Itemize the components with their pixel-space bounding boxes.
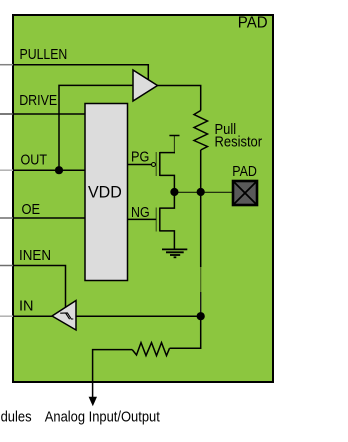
transistor Q1 PMOS gate bar <box>155 152 157 176</box>
wire PMOS source to VDD rail <box>160 152 175 154</box>
wire DRIVE to VDD block <box>13 113 85 115</box>
wire OUT external stub <box>0 169 13 171</box>
svg-text:IN: IN <box>19 298 34 315</box>
svg-text:NG: NG <box>131 204 150 221</box>
wire NMOS source to ground <box>160 231 175 249</box>
transistor Q1 PMOS channel bar <box>159 152 161 176</box>
junction OUT branch <box>55 166 63 174</box>
wire NG gate from VDD <box>128 218 157 220</box>
wire PMOS drain to pad node <box>160 175 175 192</box>
wire PULLEN to buffer enable <box>13 65 148 81</box>
ground <box>162 249 187 257</box>
svg-text:OE: OE <box>22 201 41 218</box>
wire resistor to analog output <box>93 350 133 400</box>
pad cell outline box <box>13 15 273 382</box>
svg-text:INEN: INEN <box>19 247 51 264</box>
transistor Q2 NMOS channel bar <box>159 208 161 232</box>
wire DRIVE external stub <box>0 113 13 115</box>
VDD rail tick <box>169 135 179 137</box>
wire IN to input buffer output apex <box>13 315 52 317</box>
wire PULLEN external stub <box>0 64 13 66</box>
PAD bond pad square <box>233 181 257 205</box>
svg-text:VDD: VDD <box>88 183 122 201</box>
svg-text:PAD: PAD <box>238 15 268 32</box>
wire buffer output to pull resistor <box>158 86 201 111</box>
schmitt hysteresis glyph <box>60 313 73 319</box>
svg-text:Resistor: Resistor <box>215 134 263 151</box>
junction pad node left <box>170 188 178 196</box>
svg-text:dules: dules <box>1 409 32 426</box>
junction analog branch <box>197 312 205 320</box>
tri-state pull buffer <box>133 70 158 101</box>
svg-text:PAD: PAD <box>232 163 257 180</box>
wire OE external stub <box>0 217 13 219</box>
svg-text:Analog Input/Output: Analog Input/Output <box>45 409 161 426</box>
wire OUT to VDD block <box>13 169 85 171</box>
wire input buffer to pad node <box>76 315 201 317</box>
transistor Q1 PMOS gate bubble <box>152 163 156 167</box>
junction pad node right <box>197 188 205 196</box>
analog series resistor zigzag <box>132 343 169 356</box>
wire pull resistor to pad node <box>200 150 202 192</box>
wire analog branch down <box>170 316 201 348</box>
wire OUT branch up to buffer input <box>59 85 133 170</box>
svg-text:PULLEN: PULLEN <box>20 46 68 63</box>
wire INEN to input buffer enable <box>13 266 66 309</box>
pull resistor zigzag <box>194 111 208 151</box>
input buffer (schmitt) <box>52 301 76 331</box>
arrowhead analog output <box>89 397 97 407</box>
transistor Q2 NMOS gate bar <box>155 208 157 232</box>
wire INEN external stub <box>0 265 13 267</box>
wire pad node down to analog branch <box>200 192 202 316</box>
wire IN external stub <box>0 315 13 317</box>
wire pad node to PAD square <box>174 191 233 193</box>
svg-text:PG: PG <box>131 149 149 166</box>
svg-text:OUT: OUT <box>21 151 48 168</box>
wire PG gate from VDD <box>128 164 152 166</box>
VDD block <box>85 104 128 281</box>
svg-text:DRIVE: DRIVE <box>19 92 57 109</box>
wire NMOS drain to pad node <box>160 192 175 208</box>
wire OE to VDD block <box>13 217 85 219</box>
